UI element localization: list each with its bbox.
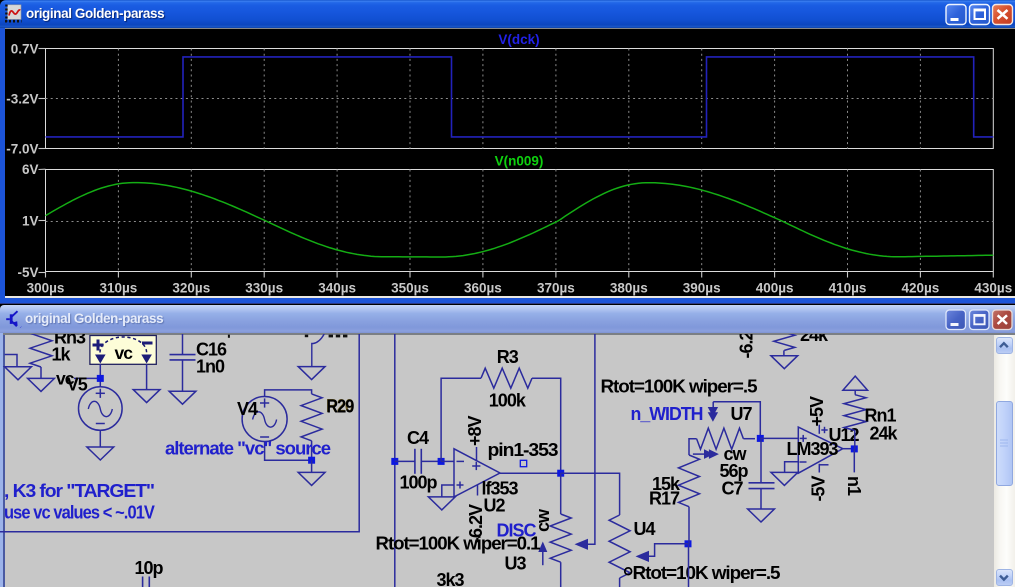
U7 wiper arrows [708, 407, 718, 417]
svg-text:360µs: 360µs [464, 281, 502, 296]
node U2 output [557, 470, 564, 477]
svg-text:400µs: 400µs [756, 281, 794, 296]
wire vc minus to ground [146, 364, 148, 390]
svg-text:390µs: 390µs [683, 281, 721, 296]
capacitor C4 [395, 460, 415, 462]
circle marker U4 [625, 568, 632, 575]
svg-text:-7.0V: -7.0V [6, 141, 38, 156]
resistor R3 [441, 378, 481, 461]
svg-text:1V: 1V [22, 214, 39, 229]
svg-text:R17: R17 [649, 489, 680, 509]
svg-text:1n0: 1n0 [196, 357, 225, 377]
svg-text:0.7V: 0.7V [11, 42, 39, 57]
svg-text:vc: vc [115, 343, 134, 363]
resistor Rn3 [30, 322, 52, 367]
svg-text:Rn1: Rn1 [865, 406, 897, 426]
svg-text:U4: U4 [634, 519, 656, 539]
wire net vc stub [74, 377, 100, 379]
ground left stub [5, 367, 32, 380]
ground U2 plus input [428, 497, 455, 510]
svg-text:100p: 100p [400, 473, 438, 493]
SCHEMATIC SVG [0, 334, 994, 587]
schematic window icon [0, 304, 26, 334]
svg-text:320µs: 320µs [172, 281, 210, 296]
svg-text:350µs: 350µs [391, 281, 429, 296]
U12 power pins [818, 425, 820, 434]
window 1 buttons [944, 3, 1015, 27]
svg-text:100k: 100k [489, 390, 527, 410]
wire U2 plus input to ground [442, 485, 454, 497]
voltage source V5 [79, 387, 123, 431]
svg-text:3k3: 3k3 [437, 570, 465, 587]
node U2 inverting input [438, 458, 445, 465]
ground under V5 [87, 447, 114, 460]
svg-text:+8V: +8V [465, 415, 485, 446]
svg-text:-6.2V: -6.2V [737, 334, 757, 359]
node under R20 [308, 457, 315, 464]
node C4 left [391, 458, 398, 465]
svg-text:C7: C7 [722, 479, 744, 499]
svg-text:U7: U7 [731, 404, 753, 424]
svg-text:24k: 24k [870, 424, 899, 444]
wire U7 node to U12 plus [760, 437, 798, 439]
svg-text:R3: R3 [497, 347, 519, 367]
svg-text:6V: 6V [22, 162, 39, 177]
node R17 bottom [685, 540, 692, 547]
svg-text:340µs: 340µs [318, 281, 356, 296]
svg-text:pin1-353: pin1-353 [488, 440, 559, 460]
capacitor C7 [760, 438, 762, 482]
ground under R20 [298, 472, 325, 485]
scrollbar [994, 335, 1015, 587]
svg-text:V4: V4 [237, 399, 258, 419]
U7 cw arrow [693, 453, 708, 455]
svg-text:cw: cw [533, 508, 553, 532]
window 1 titlebar [0, 0, 1015, 28]
svg-text:V(n009): V(n009) [495, 154, 544, 169]
svg-text:alternate "vc" source: alternate "vc" source [165, 438, 331, 458]
pane2 frame [46, 170, 994, 272]
svg-text:420µs: 420µs [901, 281, 939, 296]
long vertical wire [394, 330, 396, 587]
svg-text:V(dck): V(dck) [498, 32, 539, 47]
svg-text:1k: 1k [52, 345, 72, 365]
wiper wire U3 [586, 330, 595, 544]
svg-text:LM393: LM393 [787, 439, 839, 459]
node U7 right [757, 435, 764, 442]
comment box outline [0, 330, 359, 532]
ground U12 minus [771, 472, 798, 485]
svg-text:-5V: -5V [17, 265, 38, 280]
svg-text:300µs: 300µs [27, 281, 65, 296]
ground under Rn3 [28, 378, 55, 391]
potentiometer U4 [609, 515, 630, 578]
comparator U12 LM393 [798, 427, 843, 473]
wire V4 bottom [265, 442, 312, 461]
wire V4 loop to R20 [265, 390, 312, 397]
resistor Rn1 [844, 395, 866, 431]
resistor R17 [679, 455, 700, 507]
ground under C16 [169, 391, 196, 404]
svg-text:-3.2V: -3.2V [6, 91, 38, 106]
window 1 left border + plot bg [0, 28, 5, 303]
svg-text:R29: R29 [327, 397, 355, 417]
ground vc minus [133, 390, 160, 403]
svg-text:410µs: 410µs [829, 281, 867, 296]
svg-text:U3: U3 [505, 554, 527, 574]
power arrow +5V [843, 376, 868, 390]
svg-text:24k: 24k [800, 334, 829, 345]
svg-text:370µs: 370µs [537, 281, 575, 296]
svg-text:, K3 for "TARGET": , K3 for "TARGET" [4, 481, 154, 501]
wire output to U3 top [560, 473, 562, 514]
cut text marks top [228, 335, 230, 338]
window 2 [0, 303, 1015, 305]
svg-text:V5: V5 [67, 375, 88, 395]
source vc highlighted box [90, 336, 156, 365]
svg-text:n_WIDTH: n_WIDTH [631, 404, 703, 424]
svg-text:Rtot=100K wiper=0.1: Rtot=100K wiper=0.1 [376, 534, 541, 554]
resistor 24k top [774, 314, 795, 350]
svg-text:10p: 10p [135, 558, 164, 578]
svg-text:430µs: 430µs [974, 281, 1012, 296]
resistor R20 [301, 394, 322, 441]
capacitor C16 [182, 330, 184, 355]
trace V(n009) sine [46, 183, 994, 257]
ground top 24k [771, 356, 798, 369]
wire left stub [5, 355, 18, 367]
op-amp U2 lf353 [454, 449, 500, 497]
window 2 buttons (inactive) [944, 308, 1015, 332]
wire vc to V5 [99, 364, 101, 388]
wiper wire U4 [648, 544, 688, 557]
wave window icon [0, 0, 30, 28]
svg-text:+5V: +5V [807, 396, 827, 427]
svg-text:330µs: 330µs [245, 281, 283, 296]
pane1 frame [46, 49, 994, 149]
svg-text:Rtot=100K wiper=.5: Rtot=100K wiper=.5 [601, 377, 758, 397]
ground under C7 [748, 509, 775, 522]
wire output to U4 top [561, 473, 620, 515]
wire U12 output [843, 448, 855, 450]
node U12 output [851, 445, 858, 452]
wire from top (bent with arc) [312, 334, 324, 367]
svg-text:use vc values < ~.01V: use vc values < ~.01V [4, 503, 155, 523]
wire V5 to ground [99, 430, 101, 447]
U3 cw arrow [542, 550, 544, 565]
node vc/V5 [97, 375, 104, 382]
wire U2 output [500, 472, 561, 474]
potentiometer U7 [689, 439, 697, 455]
svg-text:C4: C4 [407, 428, 429, 448]
svg-text:Rtot=10K wiper=.5: Rtot=10K wiper=.5 [633, 563, 781, 583]
potentiometer U3 [550, 514, 571, 562]
ground mid top [298, 367, 325, 380]
wire U12 minus to ground [785, 462, 799, 473]
trace V(dck) square wave [46, 57, 994, 137]
svg-text:380µs: 380µs [610, 281, 648, 296]
svg-text:n1: n1 [844, 476, 864, 496]
x axis labels [27, 281, 1013, 296]
svg-text:-5V: -5V [809, 475, 829, 501]
U2 power pins [476, 447, 478, 462]
svg-text:310µs: 310µs [99, 281, 137, 296]
WAVEFORM SVG [0, 28, 1015, 297]
voltage source V4 [242, 397, 287, 442]
svg-text:U2: U2 [484, 496, 506, 516]
